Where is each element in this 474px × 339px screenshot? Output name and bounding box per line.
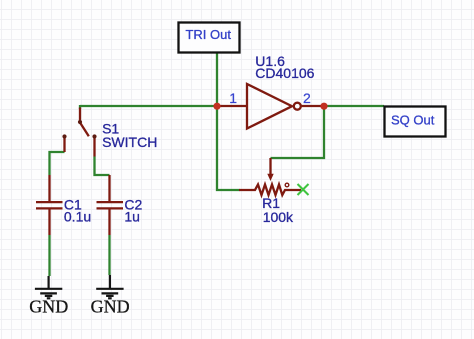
svg-text:GND: GND [29, 297, 68, 317]
svg-text:2: 2 [303, 90, 311, 106]
svg-text:CD40106: CD40106 [255, 65, 314, 81]
svg-text:100k: 100k [263, 209, 294, 225]
svg-text:GND: GND [91, 297, 130, 317]
svg-text:SQ Out: SQ Out [391, 112, 435, 127]
svg-text:0.1u: 0.1u [64, 209, 91, 225]
svg-text:TRI Out: TRI Out [185, 27, 231, 42]
svg-text:1: 1 [229, 90, 237, 106]
svg-text:1u: 1u [124, 209, 140, 225]
svg-text:SWITCH: SWITCH [102, 134, 157, 150]
